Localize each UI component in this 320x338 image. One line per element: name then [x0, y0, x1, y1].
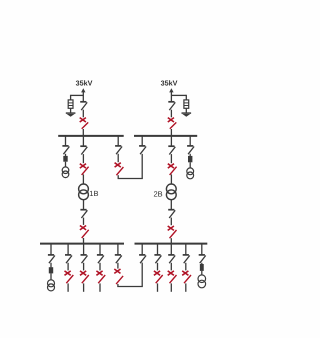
wire feeder R1 tail [157, 283, 159, 291]
breaker feeder R1 (closed) [154, 271, 160, 275]
wire tie lower right stub [141, 244, 143, 255]
wire 1B bay stub [82, 136, 84, 146]
wire tie upper left mid [117, 154, 119, 162]
voltage transformer PT3 [48, 280, 55, 287]
svg-text:1B: 1B [89, 189, 98, 198]
disconnector PT bay 1 [62, 145, 68, 147]
disconnector 2B high side [168, 145, 174, 147]
wire feeder R3 mid [185, 263, 187, 271]
wire 1B to bus III [83, 238, 85, 244]
wire 2B high [170, 154, 172, 163]
wire 1B high [82, 154, 84, 163]
wire PT bay 2 lower [189, 162, 191, 168]
voltage transformer PT1 [62, 167, 69, 174]
knife switch incoming 1 (closed) [82, 122, 89, 128]
disconnector tie lower right [139, 254, 145, 256]
wire PT bay 4 [201, 263, 203, 264]
disconnector PT bay 2 [187, 145, 193, 147]
wire feeder L1 stub [67, 244, 69, 255]
wire feeder L1 mid [67, 263, 69, 271]
breaker 1B low side (closed) [80, 226, 86, 230]
knife switch 1B low side (closed) [82, 230, 89, 238]
fuse PT bay 4 [200, 264, 204, 271]
knife switch feeder R1 (closed) [156, 275, 163, 283]
ground (arrester 1) [66, 112, 76, 114]
voltage transformer PT4 [198, 275, 206, 283]
breaker feeder L2 (closed) [80, 271, 86, 275]
disconnector 1B low side [80, 209, 86, 211]
knife switch 1B high side (closed) [82, 167, 89, 175]
wire feeder R3 stub [185, 244, 187, 255]
wire 1B low [83, 200, 85, 210]
knife switch feeder R2 (closed) [170, 275, 177, 283]
wire tie lower left stub [117, 244, 119, 255]
knife switch tie lower (closed) [116, 276, 123, 284]
disconnector tie upper left [115, 145, 121, 147]
disconnector 2B low side [168, 209, 174, 211]
wire PT bay 2 stub [189, 136, 191, 146]
fuse PT bay 3 [49, 267, 53, 273]
knife switch tie upper (closed) [116, 167, 123, 175]
bus III (low-voltage section 1) [40, 243, 124, 245]
breaker 2B high side (closed) [168, 164, 174, 168]
arrester F1 [68, 100, 73, 108]
breaker bus tie lower (closed) [114, 269, 120, 273]
wire feeder L2 tail [83, 283, 85, 291]
disconnector PT bay 3 [48, 254, 54, 256]
wire tie lower bottom [117, 284, 119, 287]
wire arrester 2 to ground [185, 108, 187, 113]
wire feeder L3 tail [99, 283, 101, 291]
fuse PT bay 2 [188, 156, 192, 162]
knife switch feeder R3 (closed) [184, 275, 191, 283]
disconnector feeder R1 [154, 254, 160, 256]
disconnector incoming 1 [80, 101, 86, 103]
wire feeder R2 tail [170, 283, 172, 291]
transformer 2B [166, 184, 176, 194]
disconnector tie lower left [115, 254, 121, 256]
disconnector feeder R3 [183, 254, 189, 256]
wire incoming 1 to bus I [82, 129, 84, 136]
bus II (35kV section 2) [134, 135, 197, 137]
wire branch to arrester 2 [171, 94, 186, 96]
wire feeder L2 mid [83, 263, 85, 271]
wire PT bay 4 stub [201, 244, 203, 255]
disconnector incoming 2 [168, 101, 174, 103]
wire feeder R1 stub [157, 244, 159, 255]
knife switch 2B high side (closed) [170, 167, 177, 175]
wire PT bay 4 lower [201, 271, 203, 275]
arrow to 35kV system (line 2) [169, 88, 173, 92]
wire incoming 1 upper [82, 91, 84, 101]
wire feeder L2 stub [83, 244, 85, 255]
wire 2B low mid [170, 218, 172, 226]
wire 2B to transformer [170, 174, 172, 184]
breaker 1B high side (closed) [80, 164, 86, 168]
breaker bus tie upper (closed) [115, 163, 121, 167]
knife switch 2B low side (closed) [170, 230, 177, 238]
disconnector 1B high side [80, 145, 86, 147]
knife switch feeder L2 (closed) [82, 275, 89, 283]
wire tie upper bottom [117, 175, 119, 178]
wire PT bay 1 lower [65, 162, 67, 168]
wire PT bay 3 stub [50, 244, 52, 255]
wire incoming 1 mid [82, 110, 84, 118]
knife switch feeder L1 (closed) [66, 275, 73, 283]
wire feeder L3 stub [99, 244, 101, 255]
wire tie upper left stub [117, 136, 119, 146]
wire incoming 2 upper [170, 91, 172, 101]
wire PT bay 3 lower [50, 273, 52, 280]
wire feeder L1 tail [67, 283, 69, 291]
wire PT bay 1 stub [65, 136, 67, 146]
wire feeder R2 stub [170, 244, 172, 255]
wire incoming 2 mid [170, 110, 172, 118]
breaker feeder L3 (closed) [96, 271, 102, 275]
wire PT bay 2 [189, 154, 191, 156]
ground (arrester 2) [182, 112, 192, 114]
wire arrester 1 to ground [70, 108, 72, 113]
wire incoming 2 to bus II [170, 129, 172, 136]
disconnector feeder L2 [81, 254, 87, 256]
breaker feeder R2 (closed) [168, 271, 174, 275]
wire feeder R2 mid [170, 263, 172, 271]
wire PT bay 1 [65, 154, 67, 156]
knife switch feeder L3 (closed) [98, 275, 105, 283]
arrester F2 [184, 100, 189, 108]
wire tie upper right stub [141, 136, 143, 146]
wire 2B low [170, 200, 172, 210]
wire 1B low mid [83, 218, 85, 225]
svg-text:35kV: 35kV [76, 78, 93, 87]
disconnector feeder R2 [168, 254, 174, 256]
fuse PT bay 1 [63, 156, 67, 162]
wire feeder R1 mid [157, 263, 159, 271]
knife switch incoming 2 (closed) [170, 122, 177, 128]
bus IV (low-voltage section 2) [135, 243, 208, 245]
bus I (35kV section 1) [58, 135, 124, 137]
disconnector feeder L3 [97, 254, 103, 256]
svg-text:35kV: 35kV [161, 78, 178, 87]
wire 1B to transformer [82, 174, 84, 184]
breaker 2B low side (closed) [168, 226, 174, 230]
breaker incoming 1 (closed) [80, 118, 86, 122]
breaker feeder L1 (closed) [65, 271, 71, 275]
breaker feeder R3 (closed) [182, 271, 188, 275]
disconnector feeder L1 [65, 254, 71, 256]
voltage transformer PT2 [187, 168, 194, 175]
breaker incoming 2 (closed) [168, 118, 174, 122]
wire feeder R3 tail [185, 283, 187, 291]
wire branch to arrester 1 [71, 94, 84, 96]
transformer 1B [79, 184, 89, 194]
wire 2B to bus IV [170, 238, 172, 243]
svg-text:2B: 2B [154, 190, 163, 199]
arrow to 35kV system (line 1) [81, 88, 85, 92]
wire 2B bay stub [170, 136, 172, 146]
disconnector tie upper right [139, 145, 145, 147]
disconnector PT bay 4 [199, 254, 205, 256]
wire tie lower left mid [117, 263, 119, 269]
wire PT bay 3 [50, 263, 52, 268]
wire feeder L3 mid [99, 263, 101, 271]
